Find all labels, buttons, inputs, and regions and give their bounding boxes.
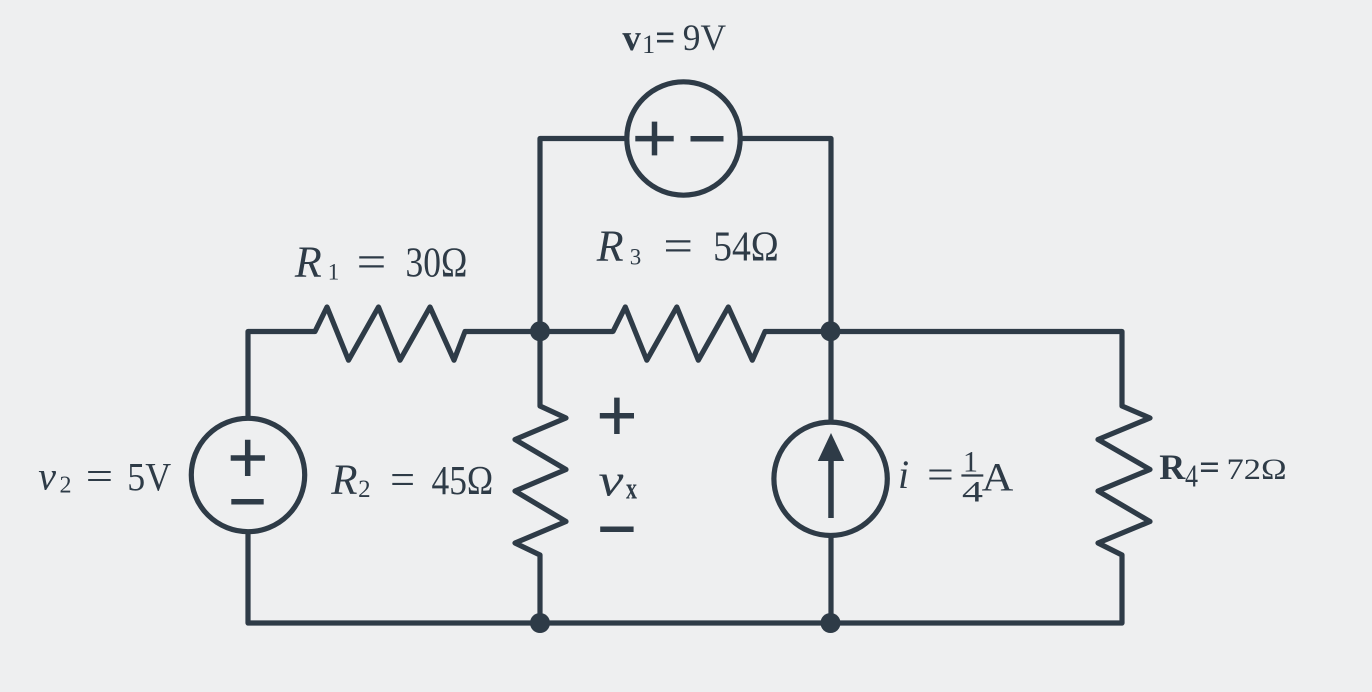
svg-text:R 3 = 54Ω: R 3 = 54Ω (596, 222, 779, 275)
svg-text:v 1 = 9V: v 1 = 9V (622, 18, 726, 62)
svg-text:R 2 = 45Ω: R 2 = 45Ω (330, 457, 493, 507)
svg-text:v x: v x (598, 456, 637, 506)
svg-text:R 1 = 30Ω: R 1 = 30Ω (294, 238, 467, 290)
svg-text:v 2 = 5V: v 2 = 5V (38, 454, 171, 502)
